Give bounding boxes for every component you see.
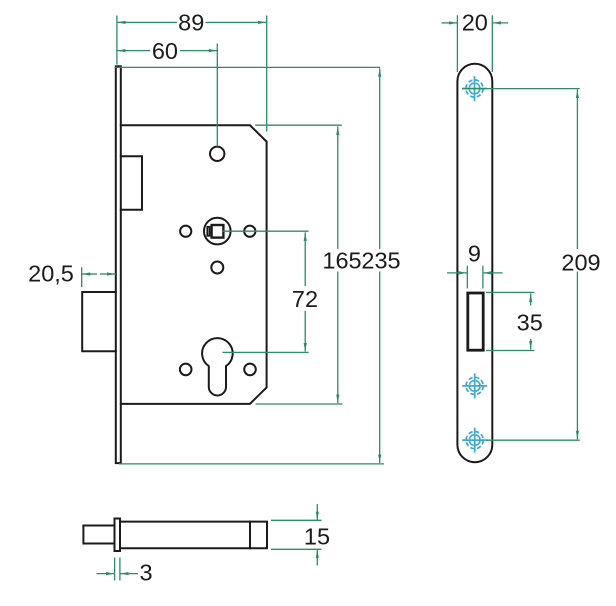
latch head (bottom view) (83, 526, 113, 544)
screw hole middle (462, 373, 487, 398)
dimension 235 reference lines (115, 66, 381, 68)
latch bolt (retracted, top left box) (121, 156, 142, 210)
screw hole bottom (462, 428, 487, 453)
dimension 15 reference lines (271, 519, 322, 521)
hole below follower (211, 262, 223, 274)
lock body outline (121, 125, 267, 404)
faceplate (bottom view) (115, 519, 121, 552)
dimension 9 (466, 266, 468, 289)
dimension 165 reference lines (255, 124, 342, 126)
dimension 20 (456, 15, 458, 72)
svg-text:15: 15 (304, 523, 330, 549)
dimension 60 (117, 50, 150, 52)
svg-text:20: 20 (462, 10, 488, 36)
screw hole top (462, 76, 487, 101)
hole right of cylinder (244, 364, 256, 376)
svg-text:35: 35 (517, 310, 543, 336)
svg-text:209: 209 (561, 250, 600, 276)
top fixing hole (210, 147, 224, 161)
dimension 72 (304, 232, 306, 286)
svg-text:3: 3 (139, 560, 152, 586)
spindle square slot tab (207, 227, 209, 236)
svg-text:235: 235 (361, 248, 400, 274)
hole right of follower (244, 226, 255, 237)
faceplate (side view, left drawing) (116, 66, 121, 463)
striking plate (front view, right drawing) (457, 64, 492, 462)
dimension 20,5 (81, 267, 83, 287)
svg-text:60: 60 (152, 38, 178, 64)
dimension 3 (114, 558, 116, 581)
dimension 35 reference lines (486, 291, 535, 293)
dimension 209 (576, 90, 578, 250)
deadbolt (protruding, left) (82, 292, 116, 351)
extension line right (89) (266, 16, 268, 132)
extension line 60 to top hole (216, 44, 218, 147)
dimension 235 (379, 68, 381, 249)
lock case end line (bottom view) (249, 522, 251, 549)
hole left of follower (180, 226, 191, 237)
euro cylinder profile hole (202, 338, 233, 395)
dimension 35 (530, 293, 532, 305)
lock case (bottom view) (120, 522, 267, 549)
dimension 15 (316, 504, 318, 520)
dimension 165 (337, 126, 339, 249)
svg-text:89: 89 (178, 9, 204, 35)
svg-text:20,5: 20,5 (28, 261, 74, 287)
svg-text:72: 72 (292, 286, 318, 312)
latch slot in plate (468, 293, 483, 350)
hole left of cylinder (180, 364, 192, 376)
svg-text:9: 9 (468, 241, 481, 267)
dimension 72 reference lines (223, 230, 309, 232)
svg-text:165: 165 (322, 248, 361, 274)
spindle follower circle (204, 218, 231, 245)
spindle square hole (212, 225, 224, 238)
dimension 209 reference lines (462, 88, 580, 90)
extension line left (89/60) (116, 16, 118, 65)
dimension 89 (117, 21, 177, 23)
